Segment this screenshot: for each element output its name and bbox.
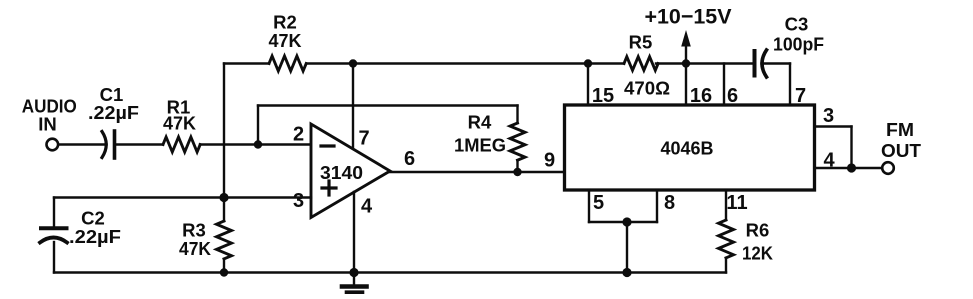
- wire op-amp pin 4 to ground rail: [353, 192, 355, 273]
- svg-text:12K: 12K: [742, 243, 774, 264]
- capacitor C3: [755, 50, 767, 77]
- wire V+ rail R2 to C3 (through pin15, pin16, R5 segment): [307, 62, 624, 64]
- value 47K (R3): [179, 238, 212, 259]
- wire pin5-pin8 connector: [589, 221, 657, 223]
- svg-text:1MEG: 1MEG: [454, 135, 506, 156]
- svg-text:4046B: 4046B: [661, 139, 714, 159]
- capacitor C1: [102, 131, 115, 158]
- svg-text:.22µF: .22µF: [88, 102, 139, 123]
- label AUDIO IN: [22, 96, 77, 135]
- terminal AUDIO IN: [47, 139, 59, 151]
- wire C3 to pin 7 corner: [762, 62, 791, 64]
- label 4046B: [661, 139, 714, 159]
- svg-text:47K: 47K: [179, 238, 212, 259]
- wire C1 to R1: [117, 143, 164, 145]
- terminal FM OUT: [882, 162, 894, 174]
- wire pin 3 (4046B): [815, 127, 852, 169]
- wire R1 to op-amp pin 2 (crosses R3 branch at x=224, no connection): [200, 143, 311, 145]
- svg-text:16: 16: [690, 85, 712, 107]
- junction dot R4/output: [513, 168, 521, 176]
- wire R4 bottom lead: [516, 160, 518, 172]
- junction dot pin16 / V+ arrow: [682, 59, 690, 67]
- resistor R1: [163, 137, 200, 152]
- wire bias branch vertical x=224 (V+ rail down to +input node): [223, 64, 225, 198]
- resistor R2: [269, 56, 306, 71]
- value .22µF (C1): [88, 102, 139, 123]
- value .22µF (C2): [69, 226, 121, 247]
- wire pin3 input line (C2 corner to op-amp pin 3): [54, 196, 311, 198]
- wire R6 to ground rail: [725, 258, 727, 273]
- svg-text:R6: R6: [746, 220, 770, 241]
- label R1: [167, 97, 191, 118]
- wire R3 to ground rail: [223, 259, 225, 273]
- svg-text:7: 7: [358, 128, 369, 150]
- power supply arrow +10-15V: [681, 30, 691, 64]
- wire audio-in to C1: [58, 143, 106, 145]
- value 47K (R2): [269, 30, 303, 51]
- wire +input node to R3: [223, 198, 225, 222]
- pin 2 label: [293, 124, 304, 146]
- wire feedback horizontal to R4 top: [258, 104, 518, 106]
- label R3: [182, 220, 206, 241]
- pin 6 output label: [404, 148, 415, 170]
- junction dot at ground rail: [622, 268, 631, 277]
- wire V+ rail left segment (corner to R2): [224, 62, 269, 64]
- svg-text:R4: R4: [468, 112, 492, 133]
- wire pin 16 to V+ rail: [685, 64, 687, 106]
- pin 4 label (4046B): [823, 150, 835, 172]
- wire pin 11 (4046B) to R6: [725, 190, 727, 220]
- label R5: [629, 32, 653, 53]
- value 470Ω (R5): [624, 78, 670, 99]
- pin 11 label: [726, 192, 747, 214]
- plus sign (non-inverting input): [322, 181, 336, 195]
- svg-text:8: 8: [664, 192, 675, 214]
- pin 7 label: [358, 128, 369, 150]
- svg-text:9: 9: [544, 150, 555, 172]
- label C2: [81, 208, 105, 229]
- junction dot R3/ground rail: [220, 268, 228, 276]
- ground symbol: [342, 273, 367, 293]
- svg-text:3: 3: [293, 190, 304, 212]
- wire pin 5 (4046B): [588, 190, 590, 222]
- label R2: [273, 12, 297, 33]
- label 3140: [320, 163, 363, 183]
- svg-text:2: 2: [293, 124, 304, 146]
- junction dot +input node: [219, 193, 228, 202]
- svg-text:6: 6: [727, 85, 738, 107]
- svg-text:7: 7: [795, 85, 806, 107]
- svg-text:FM: FM: [886, 119, 914, 140]
- svg-text:R5: R5: [629, 32, 653, 53]
- svg-text:4: 4: [361, 196, 373, 218]
- junction dot pin4/ground rail: [349, 268, 358, 277]
- wire pin5/8 node to ground rail: [626, 222, 628, 273]
- pin 4 label: [361, 196, 373, 218]
- svg-text:47K: 47K: [269, 30, 303, 51]
- label R6: [746, 220, 770, 241]
- label +10-15V: [645, 5, 733, 29]
- svg-text:100pF: 100pF: [773, 34, 824, 55]
- svg-text:3: 3: [823, 105, 834, 127]
- svg-text:IN: IN: [38, 114, 57, 135]
- svg-text:OUT: OUT: [881, 140, 922, 161]
- capacitor C2: [40, 198, 67, 273]
- svg-text:47K: 47K: [163, 113, 197, 134]
- value 1MEG (R4): [454, 135, 506, 156]
- value 100pF (C3): [773, 34, 824, 55]
- wire pin 8 (4046B): [656, 190, 658, 222]
- svg-text:11: 11: [726, 192, 747, 214]
- minus sign (inverting input): [321, 144, 334, 147]
- resistor R6: [719, 220, 734, 258]
- wire V+ rail R5 to C3 left plate: [656, 62, 755, 64]
- pin 3 label: [293, 190, 304, 212]
- svg-text:15: 15: [592, 85, 614, 107]
- wire op-amp pin 7 to V+ rail: [352, 64, 354, 151]
- wire feedback tap vertical (pin2 node up): [257, 106, 259, 145]
- pin 6 label (4046B): [727, 85, 738, 107]
- wire pin 6 to V+ rail: [723, 64, 725, 106]
- junction dot pin5/pin8: [622, 217, 631, 226]
- resistor R4: [510, 123, 525, 160]
- svg-text:C3: C3: [785, 14, 809, 35]
- label C3: [785, 14, 809, 35]
- svg-text:470Ω: 470Ω: [624, 78, 670, 99]
- wire pin 4 (4046B) to FM OUT: [815, 167, 882, 169]
- pin 15 label: [592, 85, 614, 107]
- junction dot pin2 node: [254, 140, 262, 148]
- pin 16 label: [690, 85, 712, 107]
- op-amp U1 3140: [311, 124, 390, 218]
- svg-text:5: 5: [593, 192, 604, 214]
- pin 9 label: [544, 150, 555, 172]
- svg-text:4: 4: [823, 150, 835, 172]
- svg-text:3140: 3140: [320, 163, 363, 183]
- resistor R5: [624, 57, 658, 71]
- label R4: [468, 112, 492, 133]
- value 12K (R6): [742, 243, 774, 264]
- pin 7 label (4046B): [795, 85, 806, 107]
- svg-text:6: 6: [404, 148, 415, 170]
- pin 8 label: [664, 192, 675, 214]
- wire pin 15 to V+ rail: [587, 64, 589, 106]
- resistor R3: [217, 221, 232, 259]
- svg-text:+10−15V: +10−15V: [645, 5, 733, 29]
- junction dot R2/op-amp pin7: [349, 59, 357, 67]
- label C1: [100, 84, 124, 105]
- junction dot pin15/rail: [584, 59, 592, 67]
- wire R4 top lead: [516, 106, 518, 124]
- pin 3 label (4046B): [823, 105, 834, 127]
- svg-text:.22µF: .22µF: [69, 226, 121, 247]
- pin 5 label: [593, 192, 604, 214]
- wire op-amp output to 4046B pin 9: [389, 171, 565, 173]
- value 47K (R1): [163, 113, 197, 134]
- IC 4046B box: [565, 105, 815, 190]
- label FM OUT: [881, 119, 922, 161]
- wire pin 7 (4046B) down to box: [789, 64, 791, 106]
- wire ground rail: [54, 271, 726, 273]
- junction dot pin3/pin4: [847, 163, 856, 172]
